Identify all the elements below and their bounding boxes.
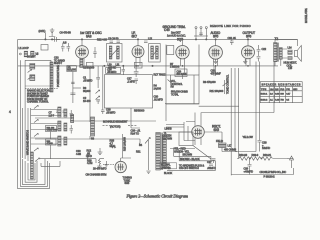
wire links pair bbox=[166, 125, 184, 128]
svg-text:R19-3: R19-3 bbox=[252, 153, 259, 157]
wire rect top a bbox=[199, 105, 239, 107]
wire 6G5 top bbox=[121, 158, 131, 161]
tube V5 electrodes bbox=[244, 48, 252, 56]
capacitor C29 electrolytic bbox=[248, 159, 252, 175]
svg-text:L17: L17 bbox=[228, 144, 233, 148]
svg-text:L1 LOOP: L1 LOOP bbox=[19, 46, 29, 50]
tube V3 6Q7 envelope bbox=[176, 46, 189, 59]
svg-text:14,000: 14,000 bbox=[154, 86, 162, 90]
coil L6 bbox=[71, 115, 74, 123]
coil L3 slug-tuned bbox=[30, 64, 35, 70]
wire top-left box right edge bbox=[50, 60, 52, 92]
wire resistor chain feed bbox=[235, 151, 237, 153]
wire rect heater leads bbox=[195, 113, 201, 146]
coil L7 primary bbox=[58, 136, 61, 146]
capacitor C28 electrolytic bbox=[258, 141, 262, 152]
wire V2 plate bbox=[137, 39, 139, 45]
wire C28 vertical bbox=[259, 62, 261, 141]
svg-text:2 MEGS: 2 MEGS bbox=[170, 65, 180, 69]
svg-text:BROWN - BLACK: BROWN - BLACK bbox=[180, 157, 200, 161]
coil L6 secondary bbox=[64, 123, 67, 131]
svg-text:450 OHMS: 450 OHMS bbox=[224, 148, 236, 152]
svg-text:+40MFD: +40MFD bbox=[244, 169, 254, 173]
wire loop to tuning section b bbox=[41, 161, 60, 166]
table row rule 1 bbox=[260, 90, 302, 92]
capacitor C12 phono bbox=[199, 33, 203, 34]
svg-text:20-470 MFD: 20-470 MFD bbox=[93, 167, 107, 171]
IF T4 winding L12 bbox=[151, 46, 154, 59]
svg-text:470 MMF: 470 MMF bbox=[211, 71, 222, 75]
speaker plug box bbox=[160, 163, 177, 169]
svg-text:.05 MFD: .05 MFD bbox=[106, 110, 115, 114]
IF winding arrows bbox=[110, 48, 158, 57]
wire speaker field vertical bbox=[273, 62, 275, 113]
capacitor C1 symbol bbox=[96, 66, 100, 88]
svg-text:C45: C45 bbox=[164, 28, 170, 32]
capacitor C15 bbox=[122, 66, 126, 75]
capacitor C7 trimmers bbox=[56, 111, 67, 113]
wire V1 pins to bus bbox=[80, 58, 84, 66]
svg-text:WAVE BAND SWITCH: WAVE BAND SWITCH bbox=[26, 130, 30, 155]
svg-text:C27: C27 bbox=[207, 160, 212, 164]
speaker magnet box bbox=[295, 51, 298, 57]
coil L6 primary bbox=[58, 121, 61, 131]
wire rect cathode right bbox=[204, 132, 222, 143]
tube V1 cathode shield bar bbox=[80, 58, 83, 67]
svg-text:6G5: 6G5 bbox=[125, 181, 130, 185]
resistor R10 bbox=[237, 157, 250, 161]
svg-text:TONE CONTROL: TONE CONTROL bbox=[226, 74, 230, 94]
svg-text:36 1/2 T: 36 1/2 T bbox=[27, 55, 36, 59]
capacitor C17 bbox=[134, 66, 139, 77]
svg-text:L14: L14 bbox=[288, 46, 293, 50]
node dots on top bus bbox=[51, 39, 52, 40]
svg-text:500 MMF: 500 MMF bbox=[177, 72, 188, 76]
wire right vertical a bbox=[230, 68, 232, 175]
wire chain to arrow bbox=[287, 158, 294, 160]
trimmer C3 pair top-left bbox=[61, 43, 70, 52]
loop antenna turn 4 bbox=[25, 161, 37, 182]
svg-text:510,000: 510,000 bbox=[67, 68, 76, 72]
IF output box L12 bbox=[135, 62, 143, 68]
wire bottom return bbox=[231, 168, 293, 175]
capacitor C6 in antenna lead bbox=[51, 37, 60, 42]
svg-text:30,000: 30,000 bbox=[83, 89, 91, 93]
capacitor C19 box bbox=[175, 69, 187, 77]
tone control pot bbox=[223, 80, 227, 94]
svg-text:MFD: MFD bbox=[87, 154, 93, 158]
field coil winding bbox=[219, 143, 227, 148]
wire heater run b bbox=[179, 160, 215, 162]
wire loop to tuning section a bbox=[40, 158, 86, 160]
tube V3 electrodes bbox=[178, 48, 186, 56]
svg-text:4.7M: 4.7M bbox=[87, 161, 92, 165]
wire audio stage side rails bbox=[166, 45, 199, 76]
resistor R20 box bbox=[46, 139, 57, 145]
wire dashed to 6G5 bbox=[103, 163, 115, 165]
wire rect top b bbox=[201, 112, 274, 114]
svg-text:TYPE: TYPE bbox=[261, 89, 267, 91]
svg-text:MEG: MEG bbox=[110, 144, 116, 148]
IF T4 winding L13 bbox=[156, 46, 159, 59]
node junctions on bus2 bbox=[104, 65, 105, 66]
wire left edge vertical bbox=[17, 39, 19, 155]
svg-text:C22: C22 bbox=[262, 47, 267, 51]
svg-text:.1 MFD: .1 MFD bbox=[127, 79, 135, 83]
wire R1 down bbox=[72, 72, 74, 104]
resistor R18 vertical bbox=[99, 159, 101, 166]
wire osc to grid bbox=[73, 87, 81, 89]
wire T1 ground lead bbox=[146, 140, 150, 173]
output transformer T2 core bbox=[278, 43, 279, 62]
svg-text:B469-1: B469-1 bbox=[261, 94, 268, 96]
svg-text:BROWN: BROWN bbox=[163, 136, 173, 140]
wire heater run a bbox=[174, 155, 211, 157]
tube V6 electrodes bbox=[117, 164, 124, 171]
wire V4 pins to bus bbox=[214, 59, 218, 66]
wire top bus bbox=[18, 38, 298, 40]
svg-text:P 39133-2: P 39133-2 bbox=[264, 175, 276, 179]
node S3 junction bbox=[92, 120, 93, 121]
svg-text:T2: T2 bbox=[275, 37, 279, 41]
coil L5 primary bbox=[58, 107, 61, 117]
wire field to bus bbox=[222, 148, 256, 152]
svg-text:465 KC: 465 KC bbox=[108, 65, 116, 69]
switch S2 wiper arrow bbox=[28, 77, 32, 80]
capacitor C30 bbox=[86, 153, 90, 159]
svg-text:YELLOW: YELLOW bbox=[243, 135, 254, 139]
wire switch run c bbox=[167, 170, 215, 172]
svg-text:.05 MFD: .05 MFD bbox=[83, 78, 92, 82]
tube V4 6F5 envelope bbox=[209, 46, 223, 60]
ground far right of loop bbox=[105, 161, 108, 167]
wire T2 pins to bus bbox=[275, 59, 281, 66]
loop antenna outer turn bbox=[18, 155, 50, 189]
svg-text:CHASSIS. TURN B.: CHASSIS. TURN B. bbox=[27, 100, 49, 104]
svg-text:MODEL 6T01: MODEL 6T01 bbox=[304, 8, 308, 23]
coil L1 primary winding bbox=[24, 51, 27, 57]
wire T2 to bus bbox=[275, 39, 298, 46]
audio section box bbox=[166, 75, 199, 104]
svg-text:SEC: SEC bbox=[293, 89, 298, 91]
tube V4 electrodes bbox=[212, 48, 220, 56]
wire rotor bus bbox=[70, 120, 156, 122]
wire S3 to S4 bbox=[90, 136, 140, 143]
svg-text:TOTAL: TOTAL bbox=[171, 92, 179, 96]
wire right vertical c bbox=[238, 68, 240, 159]
wire coil box bottom bbox=[25, 85, 51, 87]
trimmer C7b bbox=[70, 125, 74, 134]
resistor R19 bbox=[250, 157, 261, 161]
tube V2 electrodes bbox=[134, 48, 141, 56]
table row rule 2 bbox=[260, 95, 302, 97]
output transformer T2 primary winding bbox=[274, 43, 277, 62]
capacitor C5 bbox=[71, 82, 74, 83]
wire R15 drop bbox=[123, 108, 141, 158]
power transformer T1 secondary bbox=[163, 136, 166, 166]
svg-text:FLD: FLD bbox=[280, 89, 284, 91]
svg-text:6K7: 6K7 bbox=[132, 34, 138, 38]
pilot arrow symbol bbox=[290, 156, 294, 168]
svg-text:FIELD: FIELD bbox=[216, 139, 223, 143]
IF T3 primary winding L10 bbox=[109, 46, 112, 59]
svg-text:R9 470,000: R9 470,000 bbox=[203, 80, 216, 84]
tube V7 6X5 rectifier envelope bbox=[192, 126, 205, 139]
ground center bottom bbox=[98, 148, 103, 154]
wire T2 sec to voice coil bbox=[282, 49, 287, 58]
wire V5 pins to bus bbox=[246, 58, 250, 66]
wire audio bottom bbox=[165, 103, 199, 105]
wire left third vertical bbox=[24, 60, 26, 159]
wire rect tube frame left bbox=[184, 122, 195, 141]
filament junction box bbox=[179, 132, 193, 146]
loop antenna turn 5 bbox=[28, 163, 35, 180]
voice coil L14 bbox=[288, 50, 292, 54]
ground at R18 bbox=[97, 166, 101, 168]
IF transformer T4 box bbox=[149, 44, 161, 63]
wire V2 pins to bus bbox=[136, 57, 140, 66]
dashed note box top bbox=[25, 88, 58, 90]
loop antenna core bar bbox=[31, 152, 34, 179]
capacitor C23 bbox=[257, 57, 261, 62]
svg-text:6A8: 6A8 bbox=[86, 34, 92, 38]
svg-text:47,000: 47,000 bbox=[47, 143, 54, 145]
phono link bar bbox=[194, 35, 208, 37]
phono link terminal b bbox=[200, 27, 202, 29]
wire second bus bbox=[18, 65, 278, 67]
resistor R16 box 400 ohms bbox=[46, 126, 57, 132]
capacitor C1 trimmer box top-left bbox=[41, 45, 48, 51]
wire switch loom c bbox=[30, 108, 32, 163]
switch S1 wiper arrow bbox=[28, 70, 32, 73]
node chain b bbox=[261, 158, 262, 159]
svg-text:BLACK: BLACK bbox=[164, 171, 172, 175]
tube V5 6F6 envelope bbox=[242, 46, 255, 59]
capacitor C26 switch bbox=[212, 159, 216, 164]
capacitor C14 box bbox=[106, 68, 121, 74]
tube V1 electrodes bbox=[78, 48, 86, 56]
svg-text:R2 50,000: R2 50,000 bbox=[83, 66, 95, 70]
svg-text:R17 76612: R17 76612 bbox=[154, 73, 166, 77]
svg-text:L15: L15 bbox=[288, 66, 293, 70]
capacitor C18 bbox=[101, 108, 105, 114]
wire C18 drop bbox=[90, 66, 103, 122]
trimmer C8 bbox=[110, 41, 114, 42]
switch wiper arrows left column bbox=[34, 106, 38, 152]
tube V2 6K7 envelope bbox=[132, 46, 144, 58]
svg-text:POSITION IN TUNE: POSITION IN TUNE bbox=[56, 65, 60, 87]
trimmer C7a bbox=[70, 110, 74, 119]
svg-text:REMOVE LINK FOR PHONO: REMOVE LINK FOR PHONO bbox=[210, 24, 251, 28]
wire phono link risers bbox=[196, 29, 206, 40]
table column rules bbox=[269, 86, 292, 102]
tube V1 6A8 envelope bbox=[76, 46, 89, 59]
capacitor C11 mid bbox=[144, 41, 148, 42]
wire filament diagonal bbox=[186, 122, 211, 160]
svg-text:R13-21: R13-21 bbox=[263, 153, 272, 157]
speaker cone bbox=[297, 46, 301, 62]
band switch shaft bar C13 bbox=[50, 62, 53, 92]
svg-text:.01 MFD: .01 MFD bbox=[154, 97, 163, 101]
svg-text:R22 4-30: R22 4-30 bbox=[97, 38, 108, 42]
switch wiper at loop bbox=[35, 158, 40, 162]
node chain a bbox=[249, 158, 250, 159]
switch S2b arrows center bbox=[96, 90, 100, 100]
svg-text:ON CHASSIS BTM: ON CHASSIS BTM bbox=[86, 173, 107, 177]
capacitor C2 symbol bbox=[96, 100, 100, 105]
svg-text:(ANT.): (ANT.) bbox=[39, 29, 46, 33]
phono link terminal c bbox=[205, 27, 207, 29]
svg-text:CROSLEY MFG CO., INC: CROSLEY MFG CO., INC bbox=[260, 170, 287, 174]
svg-text:PRI: PRI bbox=[286, 89, 290, 91]
capacitor C16 box bbox=[167, 46, 174, 55]
coil L7 secondary bbox=[64, 137, 67, 145]
svg-text:4-35: 4-35 bbox=[76, 152, 81, 156]
osc coil box under 6A8 bbox=[87, 62, 94, 68]
wire heater drops bbox=[174, 148, 216, 171]
coil L2 secondary winding bbox=[31, 51, 34, 57]
movable segment rotor dashes bbox=[103, 125, 138, 127]
capacitor C27 bbox=[209, 164, 213, 166]
loop antenna turn 2 bbox=[21, 157, 48, 187]
svg-text:6Q7: 6Q7 bbox=[177, 37, 183, 41]
svg-text:SPEAKER RESISTANCES: SPEAKER RESISTANCES bbox=[262, 83, 301, 86]
capacitor C10 bbox=[230, 39, 234, 45]
svg-text:.05MFD: .05MFD bbox=[207, 166, 216, 170]
power transformer T1 primary winding bbox=[156, 133, 161, 171]
svg-text:OHMS WW: OHMS WW bbox=[47, 130, 57, 132]
switch wiper to T1 bbox=[145, 138, 150, 144]
band switch rotor bar S3 bbox=[91, 117, 95, 136]
svg-text:B469-2: B469-2 bbox=[261, 99, 268, 101]
table header rule bbox=[260, 85, 302, 87]
IF T3 secondary winding L11 bbox=[117, 46, 120, 59]
wire V5 plate bbox=[247, 39, 249, 45]
svg-text:C10 .01: C10 .01 bbox=[228, 36, 237, 40]
svg-text:18MFD: 18MFD bbox=[262, 146, 270, 150]
svg-text:R14 TO: R14 TO bbox=[131, 131, 139, 135]
svg-text:L12: L12 bbox=[148, 37, 153, 41]
wire R20 down bbox=[50, 132, 52, 159]
ground below V5 bbox=[243, 59, 247, 64]
output transformer T2 secondary bbox=[279, 48, 282, 60]
wire V3 pins to bus bbox=[181, 58, 185, 75]
tube V7 electrodes bbox=[194, 128, 202, 135]
wire switch loom a bbox=[21, 108, 23, 158]
svg-text:MOVABLE SEGMENT: MOVABLE SEGMENT bbox=[103, 120, 128, 124]
svg-text:SHAFT: SHAFT bbox=[54, 61, 63, 65]
svg-text:1.5-7: 1.5-7 bbox=[49, 113, 55, 117]
terminal node circles bbox=[20, 53, 22, 55]
loop antenna turn 3 bbox=[22, 159, 45, 185]
wire loop bus to 6G5 bbox=[85, 159, 104, 163]
node dots tube pins bbox=[79, 65, 80, 66]
capacitor C4 bbox=[70, 93, 75, 95]
wire mid-left horizontals bbox=[35, 118, 90, 139]
antenna ANT symbol bbox=[49, 28, 55, 37]
wire audio to T1 rail bbox=[165, 104, 167, 121]
wire right vertical b bbox=[234, 68, 236, 152]
svg-text:LINKS: LINKS bbox=[165, 127, 172, 131]
svg-text:R10-16: R10-16 bbox=[239, 153, 248, 157]
svg-text:L11: L11 bbox=[116, 63, 120, 67]
hum neutralizing coil L15 bbox=[288, 57, 292, 60]
speaker resistance table frame bbox=[260, 82, 302, 103]
svg-text:56000: 56000 bbox=[138, 109, 145, 113]
svg-text:R15 100,000: R15 100,000 bbox=[123, 137, 127, 151]
capacitor C21 bbox=[212, 66, 216, 76]
resistor R18b 4.7meg bbox=[110, 146, 116, 148]
wire top of left coil box bbox=[25, 59, 51, 61]
svg-text:ON-OFF SWITCH: ON-OFF SWITCH bbox=[179, 166, 199, 170]
svg-text:R21: R21 bbox=[136, 150, 141, 154]
switch S4 contact bbox=[139, 143, 142, 146]
svg-text:Figure 2—Schematic Circuit Dia: Figure 2—Schematic Circuit Diagram bbox=[126, 193, 188, 198]
volume control R6 pot bbox=[168, 80, 172, 83]
coil L5 secondary bbox=[64, 109, 67, 117]
wire C24 vertical bbox=[255, 62, 257, 152]
wire V4 plate bbox=[215, 39, 217, 45]
trimmer C9 bbox=[117, 41, 121, 42]
svg-text:6F5: 6F5 bbox=[213, 34, 219, 38]
wire V3 plate bbox=[182, 39, 184, 45]
resistor R1 box 510,000 bbox=[67, 66, 77, 72]
capacitor C22 bbox=[257, 45, 261, 56]
wire rect plate left to T1 bbox=[166, 131, 191, 133]
wire left inner vertical bbox=[20, 60, 22, 157]
ground below V4 bbox=[213, 59, 217, 64]
svg-text:C6 470-50: C6 470-50 bbox=[60, 31, 72, 35]
svg-text:(ROTOR): (ROTOR) bbox=[110, 125, 121, 129]
IF transformer T3 box bbox=[107, 44, 123, 63]
svg-text:6X5: 6X5 bbox=[214, 128, 220, 132]
capacitor C17b bbox=[135, 79, 139, 84]
svg-text:C8 C9-70: C8 C9-70 bbox=[108, 37, 119, 41]
node junction ant/bus bbox=[45, 39, 46, 40]
wire V1 plate to IF1 bbox=[81, 39, 83, 45]
capacitor CA grid bbox=[93, 47, 96, 58]
svg-text:R11 100,000: R11 100,000 bbox=[210, 89, 224, 93]
wire audio inner verticals bbox=[171, 66, 216, 104]
wire switch loom b bbox=[27, 108, 29, 161]
wire coil taps bbox=[31, 110, 58, 145]
phono link terminal a bbox=[195, 27, 197, 29]
power transformer T1 core bbox=[161, 133, 162, 171]
svg-text:BROWN: BROWN bbox=[183, 153, 193, 157]
tube V6 6G5 tuning eye envelope bbox=[115, 161, 126, 172]
resistor R13 bbox=[262, 157, 288, 161]
svg-text:10-470: 10-470 bbox=[83, 99, 91, 103]
center big wiring rectangle bbox=[104, 75, 152, 108]
wire antenna lead bbox=[44, 33, 46, 40]
svg-text:6F6: 6F6 bbox=[246, 34, 252, 38]
wire heater label row bbox=[170, 148, 195, 150]
coil L4 slug-tuned bbox=[30, 75, 35, 81]
svg-text:.05 MFD: .05 MFD bbox=[107, 70, 116, 74]
